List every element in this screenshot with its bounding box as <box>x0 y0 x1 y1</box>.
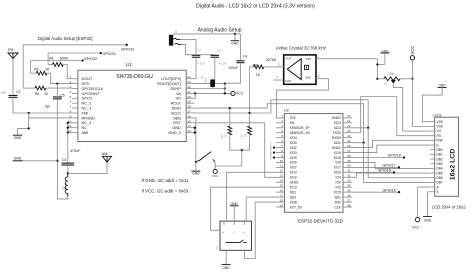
U2 pin 2 EN <box>276 122 285 124</box>
wire DBYP rail <box>195 88 225 90</box>
node GPIO33 on IO33 <box>273 151 275 153</box>
svg-text:19: 19 <box>187 100 191 104</box>
svg-text:GPIO25: GPIO25 <box>271 151 273 159</box>
rotary encoder box <box>220 221 252 250</box>
svg-text:16: 16 <box>280 188 284 192</box>
U1 pin 13 GND_2 <box>186 132 194 134</box>
svg-text:C4: C4 <box>243 55 247 59</box>
svg-text:36: 36 <box>347 193 351 197</box>
capacitor C8 4.7uF <box>181 45 215 55</box>
capacitor C4 100nF <box>240 34 242 60</box>
wire VD up to VA rail <box>194 93 197 98</box>
U2 pin 35 IO15 <box>343 191 352 193</box>
U2 pin 6 IO35 <box>276 142 285 144</box>
U1 pin 8 FMI <box>72 112 78 114</box>
svg-text:GND: GND <box>231 41 239 45</box>
svg-text:16: 16 <box>187 114 191 118</box>
svg-text:VDD: VDD <box>437 125 444 129</box>
U1 pin 20 VD <box>186 97 194 99</box>
svg-text:AM: AM <box>102 152 107 156</box>
svg-text:VD: VD <box>176 97 182 101</box>
U2 pin 16 SD2 <box>276 191 285 193</box>
svg-text:GPIO16: GPIO16 <box>378 168 391 172</box>
U1 pin 19 RCLK <box>186 102 194 104</box>
U2 pin 33 IO0 <box>343 181 352 183</box>
svg-text:C8: C8 <box>217 49 221 53</box>
svg-text:VA: VA <box>176 92 181 96</box>
svg-text:IO19: IO19 <box>334 151 341 155</box>
svg-text:2K: 2K <box>45 67 50 71</box>
svg-text:Digital Audio Setup [ESP32]: Digital Audio Setup [ESP32] <box>38 36 92 41</box>
node GPIO33 flag <box>23 44 127 46</box>
power VCC top right <box>410 56 414 60</box>
wire R5 to DFS <box>47 73 72 83</box>
U2 pin 13 IO12 <box>276 176 285 178</box>
LCD pin DB2 <box>430 158 434 160</box>
svg-text:VCC: VCC <box>236 92 244 96</box>
U1 pin 22 DBYP <box>186 88 194 90</box>
svg-text:GND: GND <box>14 156 22 160</box>
power VCC (VA) <box>231 91 235 95</box>
ground GND2 on AMI rail <box>18 160 58 162</box>
U2 pin 22 IO22 <box>343 127 352 129</box>
svg-text:32: 32 <box>347 174 351 178</box>
U1 pin 1 DOUT <box>72 78 78 80</box>
svg-text:SD2: SD2 <box>290 190 297 194</box>
svg-text:34: 34 <box>347 184 351 188</box>
svg-text:GPIO15: GPIO15 <box>383 188 396 192</box>
U2 pin 19 EXT_5V <box>276 206 285 208</box>
svg-text:RS: RS <box>437 134 441 138</box>
encoder top pin ticks <box>223 221 225 225</box>
svg-text:Active Crystal 32.768 kHz: Active Crystal 32.768 kHz <box>276 45 326 50</box>
U1 pin 2 DFS <box>72 83 78 85</box>
svg-text:3.3k: 3.3k <box>240 134 244 140</box>
svg-text:SD1: SD1 <box>334 195 341 199</box>
svg-text:21: 21 <box>347 119 351 123</box>
svg-text:NC_3: NC_3 <box>82 106 92 110</box>
resistor R1 3.3k pullup <box>229 108 231 126</box>
node GPIO25 flag <box>48 52 101 54</box>
U1 pin 16 SEN <box>186 117 194 119</box>
svg-text:20: 20 <box>187 95 191 99</box>
svg-text:GPIO33: GPIO33 <box>121 47 134 51</box>
crystal pin 1 CON <box>274 79 284 81</box>
U1 pin 23 ROUT[DOUT] <box>186 83 194 85</box>
U2 pin 30 IO17 <box>343 166 352 168</box>
LCD pin DB7 <box>430 181 434 183</box>
svg-text:R5: R5 <box>34 67 38 71</box>
svg-text:14: 14 <box>280 179 284 183</box>
svg-text:30: 30 <box>347 164 351 168</box>
svg-text:31: 31 <box>347 169 351 173</box>
wire jack sleeve to GND and C4 <box>173 33 240 35</box>
svg-text:IO35: IO35 <box>290 141 297 145</box>
U2 pin 7 IO32 <box>276 147 285 149</box>
svg-text:EN: EN <box>290 121 295 125</box>
svg-text:R/W: R/W <box>437 139 443 143</box>
wire TXD0 to RS <box>352 97 430 136</box>
svg-text:21: 21 <box>187 90 191 94</box>
node GPIO25 on IO25 <box>273 156 275 158</box>
crystal pin 2 VSS <box>316 58 350 60</box>
active crystal Y1 box <box>284 55 316 84</box>
svg-text:If GND, I2C addr = 0x11: If GND, I2C addr = 0x11 <box>142 178 189 183</box>
svg-text:470nF: 470nF <box>70 149 81 153</box>
svg-text:18: 18 <box>187 105 191 109</box>
svg-text:13: 13 <box>280 174 284 178</box>
svg-text:FMI: FMI <box>82 111 89 115</box>
wire SDIO to IO21 <box>195 104 364 143</box>
LCD pin DB3 <box>430 163 434 165</box>
wire GPIO33 to R6 <box>22 45 24 88</box>
LCD pin K <box>430 191 434 193</box>
svg-text:24: 24 <box>187 75 191 79</box>
svg-text:EXT_5V: EXT_5V <box>290 205 303 209</box>
svg-text:SCLK: SCLK <box>171 111 181 115</box>
svg-text:IO33: IO33 <box>290 151 297 155</box>
U2 pin 26 GND2 <box>343 147 352 149</box>
resistor R2 3.3k pullup <box>249 113 251 126</box>
svg-text:GND: GND <box>14 136 22 140</box>
node GPIO17 flag <box>352 166 399 168</box>
svg-text:17: 17 <box>280 193 284 197</box>
svg-text:ESP32-DEVKITC-32D: ESP32-DEVKITC-32D <box>298 219 344 224</box>
node GPIO15 flag <box>352 191 399 193</box>
wire IO4 to DB5 <box>352 173 430 177</box>
U2 pin 36 SD1 <box>343 196 352 198</box>
svg-text:22: 22 <box>347 124 351 128</box>
wire GND pins tied <box>194 127 196 129</box>
svg-text:GPIO18: GPIO18 <box>388 154 401 158</box>
svg-text:DFS: DFS <box>82 82 90 86</box>
wire antenna to C2 <box>12 59 14 95</box>
svg-text:IO0: IO0 <box>336 181 341 185</box>
wire C2 to FMI pin 8 <box>13 97 72 113</box>
wire IO21 vert to DB7 <box>364 143 431 183</box>
wire IO22 vert to DB6 <box>368 128 430 178</box>
wire L1 loop to GND rail <box>57 161 67 199</box>
svg-text:DB0: DB0 <box>437 148 443 152</box>
svg-text:R6: R6 <box>35 92 39 96</box>
svg-text:33: 33 <box>347 179 351 183</box>
U1 pin 12 AMI <box>72 132 78 134</box>
svg-text:1nF: 1nF <box>0 91 6 95</box>
switch S1 SEN address select <box>195 118 196 162</box>
svg-text:19: 19 <box>280 203 284 207</box>
svg-text:GND: GND <box>223 266 231 270</box>
svg-text:GPO2/INT: GPO2/INT <box>82 92 100 96</box>
U2 pin 5 IO34 <box>276 137 285 139</box>
svg-text:C2: C2 <box>16 90 20 94</box>
ground (backlight) <box>423 216 432 218</box>
node GPIO18 flag <box>352 157 404 159</box>
U2 pin 14 GND1 <box>276 181 285 183</box>
svg-text:IO21: IO21 <box>334 141 341 145</box>
U1 pin 17 SCLK <box>186 112 194 114</box>
svg-text:J1: J1 <box>174 29 177 33</box>
wire VA to VCC <box>195 92 231 94</box>
svg-text:22: 22 <box>187 85 191 89</box>
svg-text:If VCC, I2C addr = 0x63: If VCC, I2C addr = 0x63 <box>142 189 189 194</box>
power VCC (backlight) <box>415 217 419 221</box>
U2 pin 31 IO16 <box>343 171 352 173</box>
U2 pin 17 SD3 <box>276 196 285 198</box>
svg-text:GPO3/DCLK: GPO3/DCLK <box>82 87 104 91</box>
svg-text:IO18: IO18 <box>334 156 341 160</box>
svg-text:29: 29 <box>347 159 351 163</box>
wire VDD to U2 3V3 <box>276 79 328 118</box>
U2 pin 38 CLK <box>343 206 352 208</box>
svg-text:VO: VO <box>437 129 442 133</box>
wire IO14 to encoder A <box>226 172 276 221</box>
svg-text:IO17: IO17 <box>334 166 341 170</box>
encoder switch lever <box>226 240 247 243</box>
svg-text:IO32: IO32 <box>290 146 297 150</box>
svg-text:IO23: IO23 <box>334 121 341 125</box>
svg-text:24: 24 <box>347 134 351 138</box>
svg-text:27: 27 <box>347 149 351 153</box>
svg-text:DB1: DB1 <box>437 153 443 157</box>
wire IO19 to E <box>352 145 430 153</box>
svg-text:18: 18 <box>280 198 284 202</box>
svg-text:CMD: CMD <box>290 200 298 204</box>
svg-text:3V3: 3V3 <box>290 116 296 120</box>
svg-text:VCC: VCC <box>412 226 420 230</box>
svg-text:SI4735-D60-GU: SI4735-D60-GU <box>116 74 153 80</box>
svg-text:▸: ▸ <box>223 231 224 234</box>
capacitor C5 5pf <box>56 84 58 96</box>
svg-text:13: 13 <box>187 129 191 133</box>
svg-text:VCC: VCC <box>410 46 415 55</box>
U2 pin 29 IO5 <box>343 161 352 163</box>
capacitor C7 4.7uF <box>180 39 196 54</box>
svg-text:U1: U1 <box>126 62 132 67</box>
svg-text:16x2 LCD: 16x2 LCD <box>449 148 456 180</box>
wire pot wiper to VO <box>393 84 430 131</box>
svg-text:IO4: IO4 <box>336 176 341 180</box>
ground GND1 <box>13 134 22 136</box>
svg-text:CON: CON <box>285 79 291 83</box>
U1 pin 5 GPO1 <box>72 97 78 99</box>
U2 ESP32-DEVKITC-32D box <box>285 114 344 213</box>
svg-text:CLK: CLK <box>334 205 341 209</box>
wire ROUT rail <box>195 83 225 85</box>
LCD pin DB4 <box>430 167 434 169</box>
svg-text:14: 14 <box>187 124 191 128</box>
ground (switch) <box>195 162 197 171</box>
svg-text:Analog Audio Setup: Analog Audio Setup <box>198 27 242 33</box>
wire R3 down to RCLK <box>250 67 254 113</box>
wire C8 to ROUT <box>214 57 216 83</box>
svg-text:3.3k: 3.3k <box>220 134 224 140</box>
svg-text:NC: NC <box>82 126 88 130</box>
wire A to VCC <box>418 187 431 217</box>
wire GND2 to R/W <box>352 140 430 147</box>
encoder bottom pin to GND <box>225 250 227 264</box>
U2 pin 15 IO13 <box>276 186 285 188</box>
svg-text:32768: 32768 <box>266 58 276 62</box>
U1 pin 18 SDIO <box>186 107 194 109</box>
svg-text:DOUT: DOUT <box>82 77 93 81</box>
U1 pin 7 NC_3 <box>72 107 78 109</box>
U2 pin 27 IO19 <box>343 152 352 154</box>
svg-text:GPIO17: GPIO17 <box>383 164 396 168</box>
svg-text:10k: 10k <box>388 72 394 76</box>
svg-text:38: 38 <box>347 203 351 207</box>
capacitor C6 22uF <box>212 79 214 89</box>
svg-text:E: E <box>437 143 439 147</box>
svg-text:NC_4: NC_4 <box>82 121 92 125</box>
svg-text:IO25: IO25 <box>290 156 297 160</box>
U1 pin 15 RST <box>186 122 194 124</box>
LCD pin DB1 <box>430 153 434 155</box>
svg-text:11: 11 <box>280 164 283 168</box>
wire C5 to GND rail <box>56 99 58 161</box>
wire RFGND to GND <box>29 117 72 119</box>
svg-text:600R: 600R <box>60 57 69 61</box>
svg-text:35: 35 <box>347 188 351 192</box>
svg-text:DB5: DB5 <box>437 171 443 175</box>
power VCC (switch) <box>213 169 217 173</box>
U2 pin 28 IO18 <box>343 157 352 159</box>
svg-text:∨: ∨ <box>233 231 235 234</box>
svg-text:IO5: IO5 <box>336 161 341 165</box>
svg-text:AMI: AMI <box>82 131 89 135</box>
node GPIO16 flag <box>352 171 394 173</box>
svg-text:20: 20 <box>347 114 351 118</box>
node GPIO32 flag <box>31 60 83 62</box>
svg-text:GND: GND <box>172 126 181 130</box>
svg-text:5pf: 5pf <box>45 104 50 108</box>
svg-text:15: 15 <box>280 184 284 188</box>
svg-text:100nF: 100nF <box>228 66 238 70</box>
svg-text:IO2: IO2 <box>336 185 341 189</box>
U2 pin 21 IO23 <box>343 122 352 124</box>
wire GPIO25 to R4 <box>47 53 49 65</box>
svg-text:4.7µF: 4.7µF <box>219 62 227 66</box>
svg-text:GND: GND <box>424 219 432 223</box>
LCD pin RS <box>430 135 434 137</box>
wire SD3 to encoder top pin <box>246 197 276 221</box>
svg-text:OUT: OUT <box>285 57 291 61</box>
svg-text:LCD 20x4 or 16x2: LCD 20x4 or 16x2 <box>432 204 466 209</box>
wire C7 to LOUT <box>195 57 197 78</box>
svg-text:LOUT[DFS]: LOUT[DFS] <box>161 77 181 81</box>
svg-text:15: 15 <box>187 119 191 123</box>
ground (jack) <box>231 40 240 42</box>
svg-text:IO13: IO13 <box>290 185 297 189</box>
LCD pin R/W <box>430 139 434 141</box>
svg-text:17: 17 <box>187 110 191 114</box>
wire VCC to VDD <box>412 79 430 127</box>
LCD pin DB5 <box>430 172 434 174</box>
svg-text:23: 23 <box>347 129 351 133</box>
svg-text:IO15: IO15 <box>334 190 341 194</box>
U2 pin 32 IO4 <box>343 176 352 178</box>
wire K to GND <box>428 192 431 216</box>
svg-text:GPIO32: GPIO32 <box>84 57 97 61</box>
svg-text:DB6: DB6 <box>437 176 443 180</box>
svg-text:GPO1: GPO1 <box>82 97 93 101</box>
svg-text:RFGND: RFGND <box>82 116 96 120</box>
svg-text:GND: GND <box>439 84 447 88</box>
svg-text:4.7µF: 4.7µF <box>197 62 205 66</box>
LCD pin VDD <box>430 125 434 127</box>
U2 pin 9 IO25 <box>276 157 285 159</box>
svg-text:DB7: DB7 <box>437 181 443 185</box>
svg-text:DBYP: DBYP <box>171 87 182 91</box>
svg-text:10: 10 <box>280 159 284 163</box>
U1 pin 10 NC_4 <box>72 122 78 124</box>
svg-text:GND1: GND1 <box>290 181 299 185</box>
U2 pin 10 IO26 <box>276 161 285 163</box>
svg-text:◂: ◂ <box>243 231 244 234</box>
U2 pin 11 IO27 <box>276 166 285 168</box>
U2 pin 12 IO14 <box>276 171 285 173</box>
wire pullups to VCC <box>230 135 250 150</box>
wire C4 to ROUT rail <box>225 63 241 83</box>
svg-text:GND: GND <box>192 172 200 176</box>
svg-text:23: 23 <box>187 80 191 84</box>
junction pins 10 11 12 <box>68 122 72 124</box>
U1 pin 11 NC <box>72 127 78 129</box>
crystal pin 3 OUT <box>274 66 284 68</box>
svg-text:ROUT[DOUT]: ROUT[DOUT] <box>157 82 181 86</box>
svg-text:28: 28 <box>347 154 351 158</box>
U1 pin 21 VA <box>186 92 194 94</box>
svg-text:22µF: 22µF <box>204 77 208 84</box>
U2 pin 18 CMD <box>276 201 285 203</box>
svg-text:NC_2: NC_2 <box>82 102 92 106</box>
svg-text:26: 26 <box>347 144 351 148</box>
svg-text:37: 37 <box>347 198 351 202</box>
svg-text:FM: FM <box>8 48 13 52</box>
U2 pin 34 IO2 <box>343 186 352 188</box>
U1 pin 4 GPO2/INT <box>72 92 78 94</box>
U2 pin 3 SENSOR_VP <box>276 127 285 129</box>
svg-text:SENSOR_VP: SENSOR_VP <box>290 126 310 130</box>
U2 pin 37 SD0 <box>343 201 352 203</box>
svg-text:C7: C7 <box>198 49 202 53</box>
svg-text:U2: U2 <box>284 109 289 113</box>
svg-text:IO22: IO22 <box>334 126 341 130</box>
svg-text:25: 25 <box>347 139 351 143</box>
svg-text:SD0: SD0 <box>334 200 341 204</box>
svg-text:GND3: GND3 <box>332 116 341 120</box>
U2 pin 23 TXD0 <box>343 132 352 134</box>
svg-text:VCC: VCC <box>212 174 219 178</box>
junction C3/L1/antenna <box>67 165 69 173</box>
svg-text:VSS: VSS <box>437 120 443 124</box>
svg-text:GND2: GND2 <box>332 146 341 150</box>
junction FMI/RFGND <box>28 112 30 114</box>
svg-text:L1: L1 <box>61 186 65 190</box>
svg-text:R4: R4 <box>49 57 53 61</box>
svg-text:SD3: SD3 <box>290 195 297 199</box>
svg-text:DB3: DB3 <box>437 162 443 166</box>
svg-text:GND_2: GND_2 <box>168 131 181 135</box>
U2 pin 8 IO33 <box>276 152 285 154</box>
svg-text:SEN: SEN <box>173 116 181 120</box>
svg-text:VDD: VDD <box>305 75 311 79</box>
svg-text:SDIO: SDIO <box>172 106 181 110</box>
wire R4 to DOUT <box>63 65 72 79</box>
svg-text:Digital Audio - LCD 16x2 or LC: Digital Audio - LCD 16x2 or LCD 20x4 (3.… <box>196 4 315 10</box>
wire SCLK to IO22 <box>195 100 369 128</box>
svg-text:RXD0: RXD0 <box>332 136 341 140</box>
wire R6 to GPO3/DCLK <box>46 87 72 89</box>
